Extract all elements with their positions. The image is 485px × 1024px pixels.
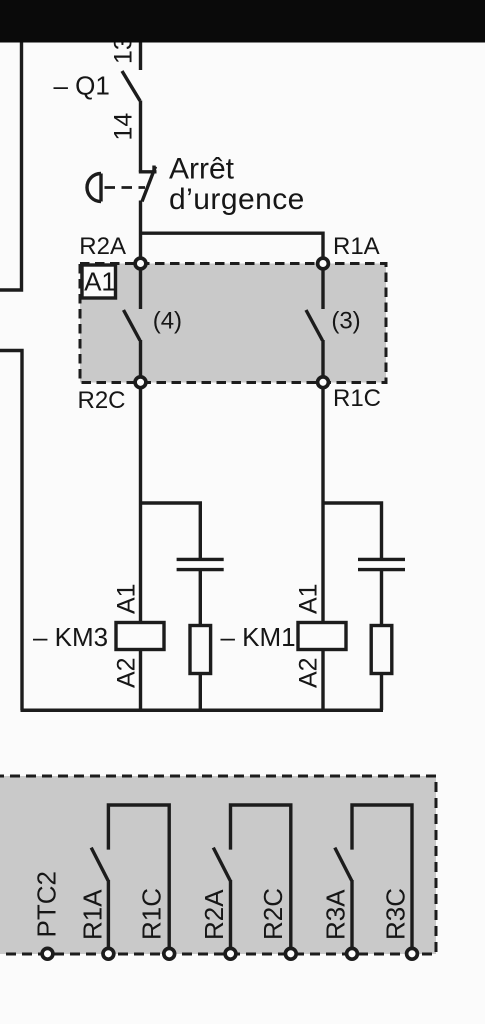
resistor left — [190, 626, 211, 711]
svg-text:R3C: R3C — [381, 888, 411, 940]
terminal R2A — [225, 948, 236, 959]
terminal R3C — [407, 948, 418, 959]
coil KM1 — [298, 623, 346, 650]
wire KM3 coil to bus — [139, 650, 142, 711]
svg-text:R1C: R1C — [137, 888, 167, 940]
capacitor left — [177, 559, 224, 626]
contact R1 (terminal strip) — [91, 805, 169, 949]
wire R1C to KM1 coil — [321, 388, 324, 624]
terminal R2C — [285, 948, 296, 959]
PTC terminal strip gray box — [0, 776, 436, 954]
node R2A — [135, 258, 146, 269]
header bar — [0, 0, 485, 43]
wire KM1 coil to bus — [321, 650, 324, 711]
svg-text:A1: A1 — [113, 583, 141, 614]
wire branch to left snubber — [141, 503, 201, 558]
capacitor right — [358, 559, 405, 626]
terminal R1C — [164, 948, 175, 959]
node R1A — [318, 258, 329, 269]
svg-text:R2A: R2A — [79, 233, 126, 260]
svg-text:(4): (4) — [153, 308, 182, 335]
wire e-stop to node R2A — [139, 201, 142, 259]
svg-text:(3): (3) — [331, 308, 360, 335]
svg-text:A1: A1 — [84, 267, 116, 297]
contact R3 (terminal strip) — [335, 805, 412, 949]
e-stop mushroom head — [87, 174, 101, 202]
wire connector to R1A — [139, 233, 323, 258]
svg-text:A2: A2 — [295, 657, 323, 688]
terminal R1A — [103, 948, 114, 959]
svg-text:R2C: R2C — [78, 387, 126, 414]
svg-text:A1: A1 — [295, 583, 323, 614]
svg-text:R1C: R1C — [333, 385, 381, 412]
svg-text:Arrêt: Arrêt — [169, 153, 235, 186]
svg-text:R3A: R3A — [321, 889, 351, 940]
svg-text:– KM3: – KM3 — [33, 622, 108, 652]
contact R2 (terminal strip) — [213, 805, 290, 949]
bus wire bottom — [21, 708, 384, 712]
wire R2C to KM3 coil — [139, 388, 142, 624]
terminal box A1 — [82, 265, 116, 298]
svg-text:PTC2: PTC2 — [31, 871, 61, 937]
wire left rail top — [0, 40, 22, 290]
coil KM3 — [116, 623, 164, 650]
breaker Q1 — [122, 40, 141, 172]
svg-text:R1A: R1A — [333, 233, 380, 260]
svg-text:– KM1: – KM1 — [221, 622, 296, 652]
e-stop link — [105, 186, 146, 189]
contact (4) — [124, 269, 141, 377]
svg-text:R2A: R2A — [199, 889, 229, 940]
svg-text:d’urgence: d’urgence — [169, 183, 305, 216]
svg-text:14: 14 — [110, 113, 138, 141]
wire left rail bottom — [0, 351, 22, 711]
svg-text:R1A: R1A — [78, 889, 108, 940]
svg-text:R2C: R2C — [258, 888, 288, 940]
wire branch to right snubber — [323, 503, 382, 558]
svg-text:– Q1: – Q1 — [54, 71, 110, 101]
e-stop contact — [141, 166, 157, 202]
terminal R3A — [347, 948, 358, 959]
safety module gray box — [80, 264, 386, 383]
resistor right — [371, 626, 392, 711]
svg-text:A2: A2 — [113, 657, 141, 688]
node R2C — [135, 377, 146, 388]
contact (3) — [306, 269, 323, 377]
node R1C — [318, 377, 329, 388]
terminal PTC2 — [42, 948, 53, 959]
